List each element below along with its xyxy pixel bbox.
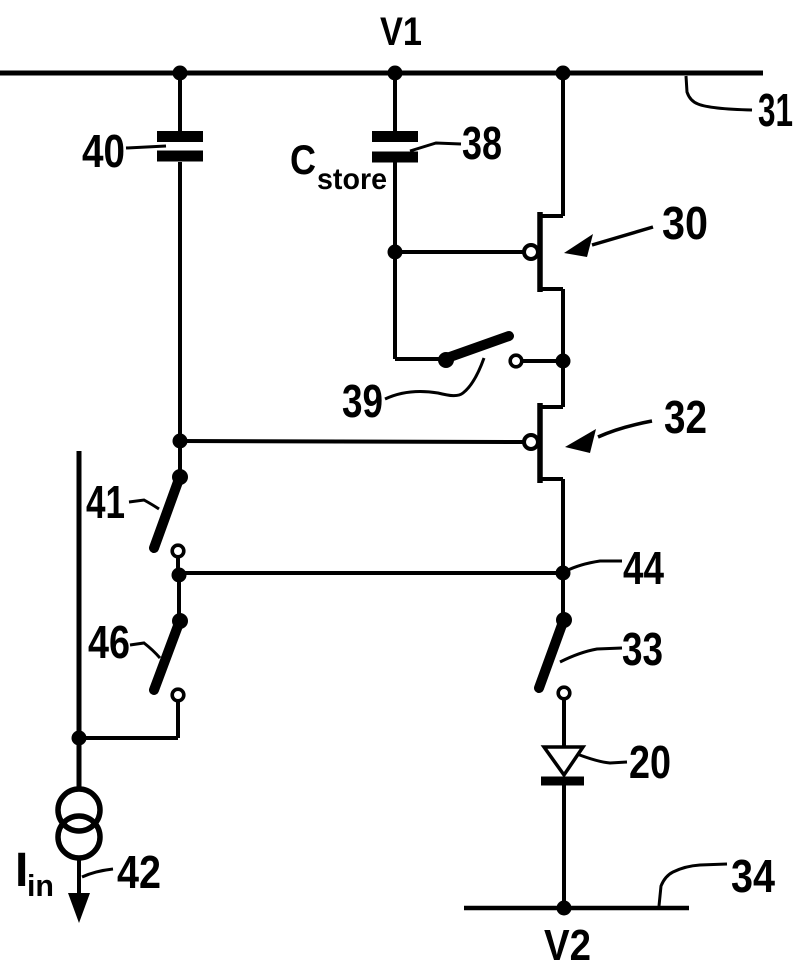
wire: diode 20 to V2 rail <box>562 785 566 906</box>
leader line to label 38 <box>410 143 461 151</box>
node: right junction of node 44 <box>556 566 571 581</box>
arrow from label 32 to transistor 32 <box>598 421 652 437</box>
node: junction rail / capacitor 40 branch <box>173 66 188 81</box>
svg-text:in: in <box>27 868 54 903</box>
svg-text:42: 42 <box>117 846 161 898</box>
wire: switch 46 down <box>176 702 180 738</box>
transistor 30 <box>561 73 565 216</box>
leader line to label 46 <box>130 643 160 658</box>
wire: rail to capacitor 38 <box>393 73 397 131</box>
switch 41 <box>172 469 188 485</box>
svg-text:39: 39 <box>342 375 383 427</box>
diode 20 <box>544 747 583 775</box>
node: junction switch 39 / transistor chain <box>556 354 571 369</box>
arrow: output current direction <box>68 893 90 923</box>
node: junction current source branch <box>72 731 87 746</box>
leader line to label 20 <box>577 754 627 763</box>
wire: horizontal to current source branch <box>79 736 178 740</box>
leader line to label 33 <box>560 648 622 662</box>
transistor 32 <box>561 361 565 407</box>
capacitor 40 <box>157 131 203 142</box>
node: junction rail / transistor 30 branch <box>556 66 571 81</box>
wire: current source branch vertical <box>77 451 82 791</box>
svg-text:20: 20 <box>629 736 671 788</box>
svg-text:34: 34 <box>731 850 775 902</box>
leader line to label 41 <box>129 500 159 509</box>
wire: capacitor 38 down to switch 39 <box>393 162 397 359</box>
leader line to label 31 <box>686 76 752 110</box>
wire: capacitor 40 to switch 41 <box>178 162 182 470</box>
svg-text:40: 40 <box>82 125 125 177</box>
svg-text:32: 32 <box>664 391 707 443</box>
wire: rail to capacitor 40 <box>178 73 182 131</box>
leader line to label 40 <box>126 146 166 148</box>
svg-text:store: store <box>317 163 387 196</box>
switch 39 <box>395 357 440 361</box>
node: left junction of node 44 <box>172 568 187 583</box>
svg-text:38: 38 <box>462 117 502 169</box>
wire: top supply rail 31 (node V1) <box>0 71 763 76</box>
node: junction rail / C_store branch <box>388 66 403 81</box>
svg-text:C: C <box>290 136 316 183</box>
leader line to label 39 <box>385 358 484 399</box>
wire: switch 41 to node 44 <box>176 558 180 573</box>
wire: node 44 horizontal <box>179 571 563 575</box>
svg-text:30: 30 <box>662 197 708 249</box>
wire: switch 33 to diode 20 <box>562 700 566 747</box>
wire: gate of transistor 30 <box>395 250 523 254</box>
wire: current source output <box>77 857 81 898</box>
svg-text:V2: V2 <box>544 921 591 964</box>
node: junction capacitor 40 branch / gate 32 <box>173 434 188 449</box>
switch 33 <box>561 573 565 614</box>
node: gate tap of transistor 30 <box>388 245 403 260</box>
svg-text:44: 44 <box>623 542 664 594</box>
current source 42 <box>58 789 100 831</box>
svg-text:33: 33 <box>622 623 663 675</box>
svg-text:V1: V1 <box>380 10 422 54</box>
leader line to label 34 <box>659 864 727 906</box>
arrow from label 30 to transistor 30 <box>592 227 653 245</box>
switch 46 <box>177 575 181 616</box>
node: junction diode branch / V2 rail <box>557 901 572 916</box>
svg-text:41: 41 <box>86 476 125 528</box>
svg-text:46: 46 <box>88 616 130 668</box>
leader line to label 42 <box>82 869 113 877</box>
capacitor 38 (C_store) <box>372 131 418 142</box>
svg-text:31: 31 <box>758 84 793 136</box>
leader line to label 44 <box>566 561 622 571</box>
wire: switch 39 to drain node <box>523 359 560 363</box>
wire: bottom rail 34 (node V2) <box>464 906 689 911</box>
wire: gate of transistor 32 <box>180 441 524 442</box>
